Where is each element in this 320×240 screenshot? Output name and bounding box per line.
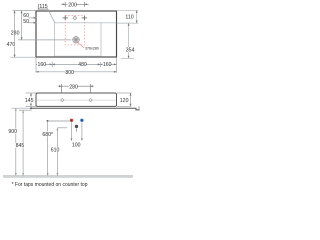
- svg-text:* For taps mounted on counter: * For taps mounted on counter top: [12, 182, 88, 188]
- supply dot blue: [80, 119, 83, 122]
- red leader from drain: [78, 42, 85, 48]
- ledge line right: [101, 22, 116, 24]
- svg-text:800: 800: [65, 70, 74, 76]
- fixing hole diamond left: [61, 98, 64, 101]
- dim 845: [19, 110, 32, 176]
- dim 280 front: [58, 84, 94, 93]
- svg-text:200: 200: [68, 2, 77, 8]
- floor line: [3, 175, 133, 177]
- dim 145 left front: [26, 93, 37, 106]
- drain circle: [72, 36, 80, 44]
- fixing hole diamond right: [89, 98, 92, 101]
- leader from 115 label: [48, 8, 55, 22]
- dim 610: [57, 128, 67, 176]
- counter left terminator dot: [30, 107, 32, 109]
- svg-text:145: 145: [25, 98, 34, 104]
- outer basin rectangle: [36, 11, 117, 57]
- svg-text:110: 110: [125, 15, 133, 21]
- supply line terminator dot: [47, 120, 49, 122]
- supply line: [48, 120, 70, 122]
- svg-text:354: 354: [126, 47, 135, 53]
- dim 354 right: [121, 23, 134, 58]
- fixing holes centreline: [37, 99, 116, 101]
- centre diamond: [73, 16, 77, 20]
- svg-text:50: 50: [23, 19, 29, 25]
- waste dot: [75, 125, 78, 128]
- supply dot red: [70, 119, 73, 122]
- svg-text:376x280: 376x280: [85, 47, 99, 51]
- front rectangle: [36, 93, 117, 106]
- svg-text:470: 470: [7, 42, 16, 48]
- dim 280 left: [13, 11, 72, 40]
- svg-text:120: 120: [120, 98, 129, 104]
- dim 110 right: [117, 10, 138, 23]
- dim 120 right front: [117, 93, 132, 106]
- counter top line: [31, 108, 140, 110]
- svg-text:(115: (115: [38, 4, 48, 10]
- dim 680*: [47, 121, 49, 176]
- tap hole cross left: [63, 16, 68, 21]
- counter end tick: [138, 106, 140, 110]
- svg-text:480: 480: [78, 62, 87, 68]
- svg-text:845: 845: [16, 143, 25, 149]
- red dashed cutout rect: [65, 16, 84, 45]
- waste stem: [76, 128, 78, 131]
- dim 100 verticals: [72, 122, 82, 141]
- tap hole cross right: [82, 16, 87, 21]
- svg-text:160: 160: [103, 62, 112, 68]
- left dims 60 / 50: [28, 18, 36, 23]
- dim 800: [36, 71, 117, 73]
- svg-text:610: 610: [51, 147, 60, 153]
- svg-text:100: 100: [72, 142, 81, 148]
- dim 470 left: [11, 11, 37, 58]
- bottom dims 160/480/160: [36, 58, 117, 73]
- bowl inner outline: [55, 23, 102, 56]
- svg-text:160: 160: [38, 62, 47, 68]
- svg-text:280: 280: [11, 31, 20, 37]
- svg-text:680*: 680*: [42, 132, 53, 138]
- svg-text:280: 280: [69, 84, 78, 90]
- dim 200 top: [61, 2, 88, 7]
- dim 900: [12, 108, 31, 176]
- svg-text:900: 900: [8, 129, 17, 135]
